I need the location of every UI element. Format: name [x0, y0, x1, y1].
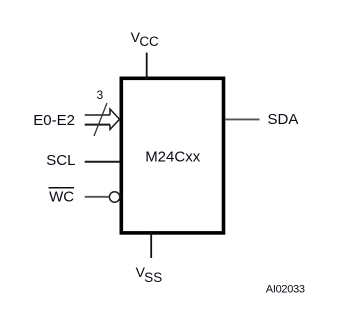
svg-text:3: 3 [97, 88, 104, 102]
wire VCC supply stub [146, 53, 148, 80]
wire SDA pin stub [225, 118, 259, 120]
wire VSS supply stub [150, 231, 152, 258]
svg-text:SS: SS [144, 270, 162, 285]
wire WC pin stub [85, 196, 110, 198]
bus width slash [94, 103, 107, 136]
chip U1 M24Cxx body [121, 78, 223, 233]
label VSS [136, 264, 163, 285]
bus arrowhead into chip [110, 109, 120, 130]
svg-text:AI02033: AI02033 [266, 284, 305, 296]
wire SCL pin stub [85, 161, 120, 163]
bus E0-E2 lower wire [85, 124, 110, 126]
svg-text:SDA: SDA [268, 111, 299, 128]
bus E0-E2 upper wire [85, 114, 110, 116]
svg-text:E0-E2: E0-E2 [33, 112, 75, 129]
label VCC [131, 29, 159, 49]
svg-text:M24Cxx: M24Cxx [145, 148, 201, 165]
inversion bubble on WC pin [109, 192, 119, 202]
svg-text:SCL: SCL [46, 152, 75, 169]
label WC with overline [49, 188, 75, 206]
svg-text:WC: WC [49, 188, 74, 205]
svg-text:CC: CC [139, 34, 159, 49]
